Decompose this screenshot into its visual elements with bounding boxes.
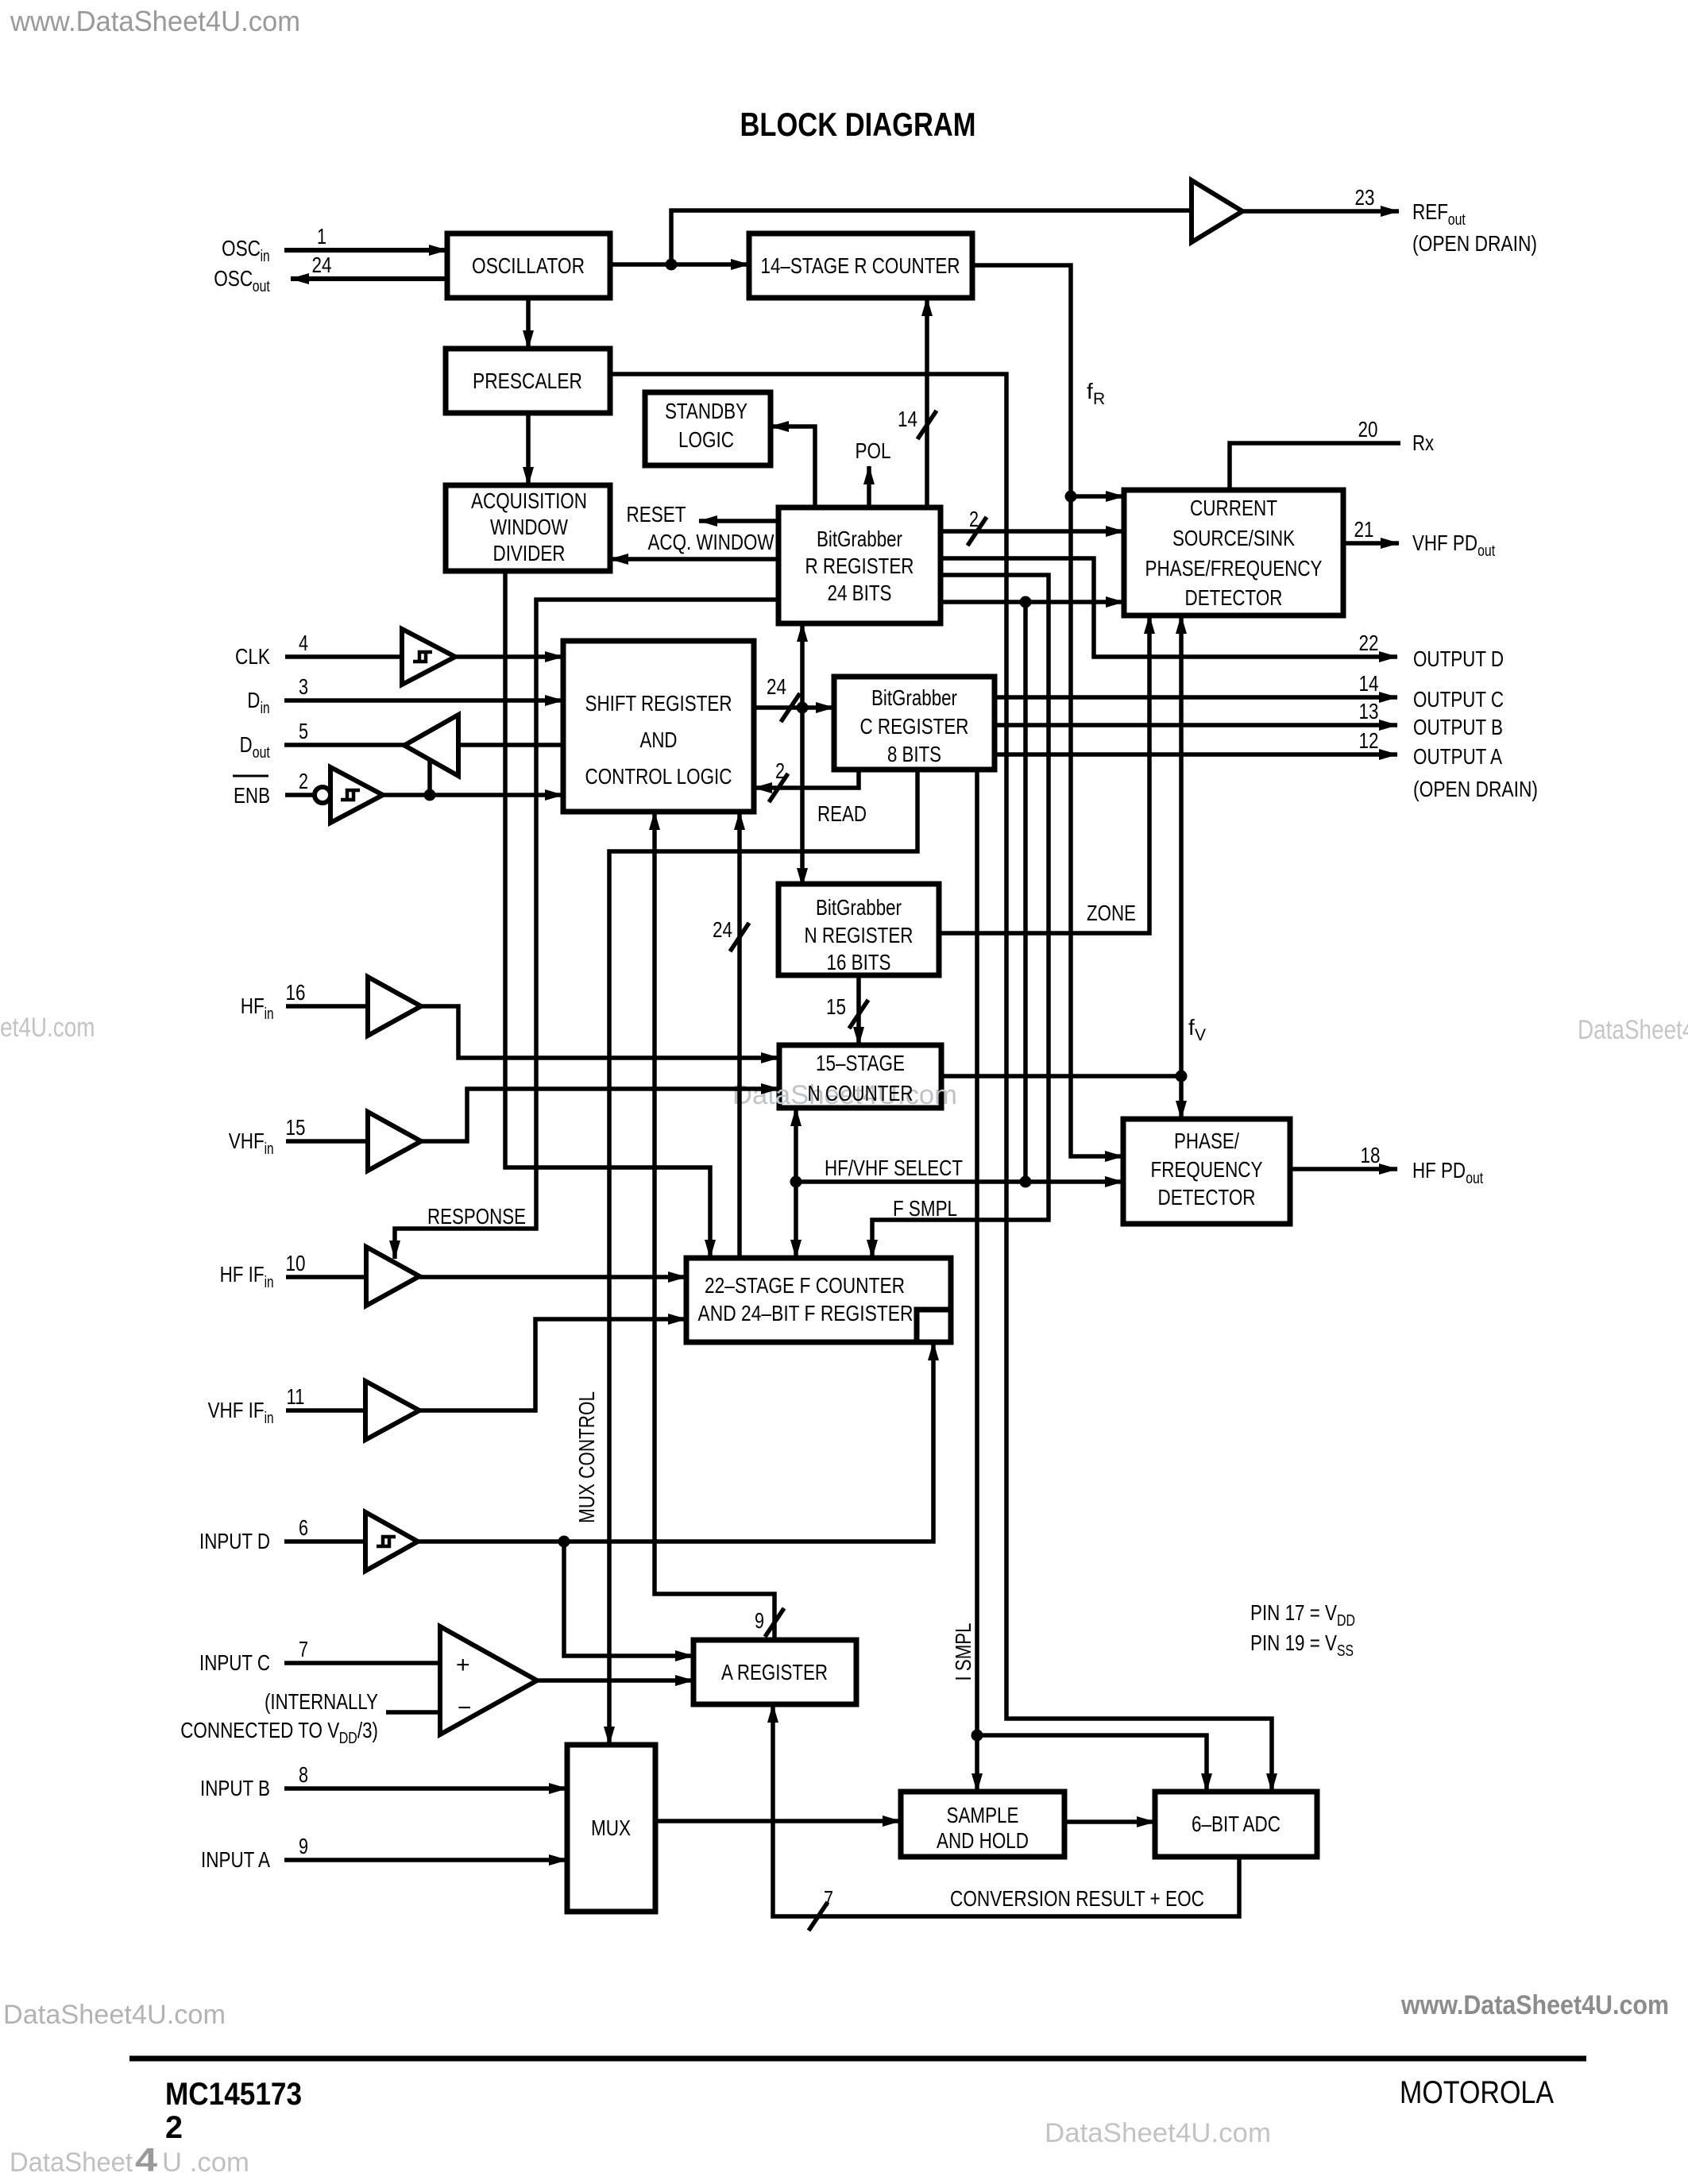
svg-text:D: D (247, 688, 260, 712)
wire READ: C REGISTER to SHIFT (2) (754, 770, 859, 788)
junction INPUT D (558, 1536, 570, 1548)
svg-text:INPUT D: INPUT D (199, 1529, 270, 1553)
svg-text:U .com: U .com (162, 2147, 249, 2178)
wire SAMPLE AND HOLD to ADC (1064, 1819, 1155, 1824)
svg-text:in: in (261, 248, 270, 265)
wire INPUT D buffer to F REGISTER tab (418, 1342, 933, 1542)
svg-text:out: out (1477, 542, 1495, 560)
svg-text:8 BITS: 8 BITS (887, 742, 941, 766)
svg-text:CURRENT: CURRENT (1190, 496, 1277, 520)
svg-text:8: 8 (299, 1762, 308, 1787)
wire down to HF/VHF select (1023, 602, 1028, 1182)
svg-text:INPUT B: INPUT B (200, 1776, 270, 1800)
wire bus up to R REGISTER (800, 623, 805, 708)
wire ZONE: N REGISTER to CURRENT (939, 615, 1149, 933)
svg-text:DataSheet4U.com: DataSheet4U.com (3, 2000, 226, 2030)
svg-text:out: out (253, 278, 270, 295)
svg-text:MC145173: MC145173 (165, 2077, 302, 2112)
wire VHFin buffer to N COUNTER (421, 1089, 779, 1141)
wire I SMPL branch to ADC (977, 1735, 1207, 1792)
svg-text:R: R (1093, 390, 1105, 408)
svg-text:HF PD: HF PD (1412, 1158, 1466, 1183)
svg-text:HF: HF (241, 994, 265, 1018)
buffer INPUT D schmitt (365, 1512, 418, 1571)
svg-text:in: in (265, 1274, 274, 1291)
svg-text:OSC: OSC (214, 266, 253, 291)
block BitGrabber C REGISTER 8 BITS (834, 677, 995, 770)
wire CONVERSION RESULT + EOC: ADC to A REGISTER (7) (773, 1704, 1239, 1916)
wire I SMPL: C REGISTER to SAMPLE AND HOLD (975, 770, 979, 1792)
wire Din to SHIFT REGISTER (284, 698, 563, 703)
svg-text:12: 12 (1359, 728, 1379, 753)
svg-text:R REGISTER: R REGISTER (805, 554, 914, 578)
wire VHFin pin to buffer (286, 1139, 368, 1144)
svg-text:OSCILLATOR: OSCILLATOR (472, 253, 585, 278)
svg-text:DIVIDER: DIVIDER (493, 541, 566, 565)
slash 2 (968, 517, 987, 546)
svg-text:C REGISTER: C REGISTER (860, 714, 969, 739)
svg-text:11: 11 (287, 1384, 305, 1409)
svg-text:LOGIC: LOGIC (678, 427, 734, 452)
wire R REGISTER to OUTPUT D pin 22 (941, 558, 1397, 657)
block OSCILLATOR (447, 233, 610, 298)
svg-text:OSC: OSC (222, 236, 261, 260)
wire HFin pin to buffer (286, 1004, 368, 1009)
wire REF buffer to REFout pin 23 (1242, 209, 1399, 214)
wire fV down to PHASE DETECTOR (1179, 1076, 1184, 1119)
svg-text:out: out (1466, 1170, 1483, 1187)
svg-text:PIN 19 = V: PIN 19 = V (1250, 1630, 1337, 1655)
block SAMPLE AND HOLD (901, 1792, 1064, 1857)
wire comparator minus stub (386, 1710, 440, 1715)
svg-text:CLK: CLK (235, 644, 270, 669)
svg-text:V: V (1195, 1026, 1206, 1044)
wire PRESCALER to 6-BIT ADC (long) (610, 374, 1272, 1792)
svg-text:HF/VHF SELECT: HF/VHF SELECT (825, 1156, 963, 1180)
svg-text:OUTPUT D: OUTPUT D (1413, 646, 1504, 671)
svg-text:f: f (1087, 379, 1093, 403)
junction select/R-reg (1020, 1176, 1032, 1188)
svg-text:N COUNTER: N COUNTER (808, 1081, 914, 1106)
block BitGrabber R REGISTER 24 BITS (778, 507, 941, 623)
svg-text:REF: REF (1412, 199, 1448, 224)
svg-text:DataSheet4U.com: DataSheet4U.com (1045, 2118, 1271, 2148)
wire Dout buffer to pin (284, 743, 404, 747)
wire INPUT B to MUX (284, 1786, 567, 1791)
junction fV (1176, 1071, 1188, 1082)
svg-text:INPUT C: INPUT C (199, 1650, 270, 1675)
slash 14 (917, 411, 937, 439)
buffer Dout (left-pointing) (404, 715, 458, 776)
buffer VHF IFin (365, 1381, 419, 1440)
block 14-STAGE R COUNTER (749, 233, 972, 298)
svg-text:POL: POL (856, 438, 891, 463)
slash 15 (849, 1000, 868, 1028)
junction I SMPL (971, 1730, 983, 1742)
wire Dout buffer enable stem (427, 759, 432, 795)
junction 24-bus (797, 702, 809, 714)
svg-text:in: in (265, 1005, 274, 1023)
svg-text:WINDOW: WINDOW (490, 515, 568, 539)
svg-text:1: 1 (317, 224, 326, 249)
wire F REGISTER readback to SHIFT (24) (737, 812, 742, 1258)
wire ACQ divider to F COUNTER (505, 571, 710, 1258)
svg-text:VHF: VHF (229, 1129, 265, 1153)
svg-text:15–STAGE: 15–STAGE (816, 1051, 905, 1075)
svg-text:Rx: Rx (1412, 430, 1434, 455)
svg-text:BLOCK DIAGRAM: BLOCK DIAGRAM (740, 106, 976, 143)
svg-text:MUX CONTROL: MUX CONTROL (574, 1391, 599, 1523)
svg-text:7: 7 (824, 1886, 833, 1911)
svg-text:DataSheet: DataSheet (10, 2147, 133, 2178)
junction ENB/Dout enable (424, 789, 436, 801)
junction R reg lower (1020, 596, 1032, 608)
wire R REGISTER to CURRENT lower (941, 600, 1124, 604)
buffer VHFin (368, 1112, 421, 1171)
svg-text:ACQ. WINDOW: ACQ. WINDOW (648, 530, 774, 554)
block CURRENT SOURCE/SINK PHASE/FREQUENCY DETECTOR (1124, 490, 1343, 615)
svg-text:4: 4 (135, 2141, 158, 2178)
svg-text:FREQUENCY: FREQUENCY (1151, 1157, 1263, 1182)
svg-text:PHASE/: PHASE/ (1174, 1129, 1239, 1153)
svg-text:VHF IF: VHF IF (208, 1398, 265, 1422)
svg-text:N REGISTER: N REGISTER (805, 923, 914, 947)
wire fV: N COUNTER to detectors (941, 1074, 1181, 1078)
wire bus down to N REGISTER (800, 708, 805, 886)
svg-text:AND HOLD: AND HOLD (937, 1828, 1029, 1853)
wire fR branch to CURRENT detector (1071, 494, 1124, 499)
wire MUX CONTROL: C REGISTER to MUX (609, 770, 917, 1745)
svg-text:in: in (265, 1410, 274, 1427)
svg-text:3: 3 (299, 674, 308, 699)
svg-text:14: 14 (898, 407, 917, 431)
svg-text:INPUT A: INPUT A (201, 1847, 270, 1872)
slash 7 (809, 1902, 828, 1931)
wire C REGISTER to OUTPUT C (995, 695, 1397, 700)
svg-text:6: 6 (299, 1515, 308, 1540)
wire SHIFT REGISTER to Dout buffer (458, 743, 563, 747)
svg-text:+: + (456, 1652, 470, 1678)
wire A REGISTER readback to SHIFT (9) (655, 812, 774, 1640)
svg-text:DD: DD (1337, 1612, 1355, 1630)
svg-text:ZONE: ZONE (1087, 901, 1136, 925)
wire POL (867, 466, 871, 507)
svg-text:10: 10 (286, 1251, 306, 1275)
buffer HFin (368, 977, 421, 1036)
svg-text:24 BITS: 24 BITS (828, 581, 892, 605)
svg-text:SS: SS (1337, 1642, 1354, 1660)
svg-text:BitGrabber: BitGrabber (871, 685, 957, 710)
svg-text:−: − (458, 1695, 472, 1721)
buffer HF IFin (366, 1247, 419, 1306)
svg-text:2: 2 (299, 769, 308, 793)
svg-text:5: 5 (299, 719, 308, 743)
block A REGISTER (693, 1640, 856, 1704)
svg-text:AND 24–BIT F REGISTER: AND 24–BIT F REGISTER (698, 1301, 914, 1325)
wire OSCILLATOR to PRESCALER (526, 298, 531, 349)
wire HF/VHF select vertical N COUNTER to F COUNTER (794, 1108, 798, 1258)
svg-text:DD: DD (339, 1730, 357, 1747)
svg-text:7: 7 (299, 1637, 308, 1661)
wire OSCILLATOR to R COUNTER (610, 262, 749, 267)
svg-text:in: in (265, 1140, 274, 1158)
svg-text:SOURCE/SINK: SOURCE/SINK (1172, 526, 1295, 550)
svg-text:24: 24 (713, 917, 732, 942)
svg-text:DataSheet4U.com: DataSheet4U.com (1578, 1015, 1688, 1045)
svg-text:9: 9 (299, 1834, 308, 1858)
wire MUX to SAMPLE AND HOLD (655, 1819, 901, 1823)
block STANDBY LOGIC (645, 392, 771, 465)
svg-text:www.DataSheet4U.com: www.DataSheet4U.com (10, 5, 300, 37)
svg-text:22–STAGE F COUNTER: 22–STAGE F COUNTER (705, 1273, 905, 1298)
block ACQUISITION WINDOW DIVIDER (446, 485, 610, 571)
wire HF IFin pin to buffer (286, 1275, 366, 1279)
wire fR: R COUNTER to detectors (972, 265, 1123, 1156)
svg-text:15: 15 (826, 994, 846, 1019)
svg-text:24: 24 (767, 674, 786, 699)
wire junction up to REF buffer (671, 210, 1192, 264)
slash 2 READ (769, 774, 788, 802)
block MUX (567, 1745, 655, 1912)
svg-text:SHIFT REGISTER: SHIFT REGISTER (585, 691, 732, 716)
svg-text:2: 2 (775, 758, 785, 783)
buffer CLK schmitt (402, 629, 455, 685)
svg-text:RESET: RESET (627, 502, 686, 527)
svg-text:MUX: MUX (591, 1815, 631, 1840)
wire OSCin to OSCILLATOR (284, 248, 447, 253)
block PRESCALER (446, 349, 610, 413)
wire VHF PDout: CURRENT to pin 21 (1343, 541, 1399, 546)
svg-text:OUTPUT C: OUTPUT C (1413, 687, 1504, 712)
F REGISTER output tab (917, 1310, 951, 1342)
svg-text:16 BITS: 16 BITS (827, 950, 891, 974)
wire HF PDout: PHASE DETECTOR to pin 18 (1290, 1167, 1397, 1171)
svg-text:AND: AND (640, 727, 678, 752)
svg-text:(OPEN DRAIN): (OPEN DRAIN) (1413, 777, 1538, 801)
wire R REGISTER to R COUNTER (14) (925, 298, 929, 507)
wire PRESCALER to ACQ divider (526, 413, 531, 485)
svg-text:STANDBY: STANDBY (665, 399, 747, 423)
svg-text:ENB: ENB (234, 783, 270, 808)
svg-text:ACQUISITION: ACQUISITION (471, 488, 587, 513)
svg-text:14: 14 (1359, 671, 1379, 696)
svg-text:f: f (1188, 1015, 1195, 1040)
svg-text:OUTPUT A: OUTPUT A (1413, 744, 1502, 769)
svg-text:9: 9 (755, 1608, 764, 1633)
wire ENB buffer to SHIFT REGISTER (383, 793, 563, 797)
block 22-STAGE F COUNTER AND 24-BIT F REGISTER (686, 1258, 951, 1342)
svg-text:13: 13 (1359, 699, 1379, 723)
wire INPUT A to MUX (284, 1858, 567, 1862)
svg-text:PIN 17 = V: PIN 17 = V (1250, 1600, 1337, 1625)
svg-text:MOTOROLA: MOTOROLA (1400, 2075, 1554, 2110)
block PHASE/FREQUENCY DETECTOR (1123, 1119, 1290, 1224)
footer rule (129, 2056, 1586, 2062)
wire C REGISTER to OUTPUT A (995, 752, 1397, 757)
block BitGrabber N REGISTER 16 BITS (778, 884, 939, 975)
junction fR (1065, 491, 1077, 503)
wire R REGISTER to CURRENT (2) (941, 529, 1124, 534)
svg-text:CONNECTED TO V: CONNECTED TO V (180, 1718, 339, 1742)
svg-text:CONVERSION RESULT + EOC: CONVERSION RESULT + EOC (950, 1886, 1204, 1911)
svg-text:14–STAGE R COUNTER: 14–STAGE R COUNTER (761, 253, 960, 278)
svg-text:BitGrabber: BitGrabber (817, 527, 902, 551)
slash 9 (765, 1608, 784, 1637)
svg-text:out: out (1448, 211, 1466, 229)
wire R REGISTER to STANDBY LOGIC (771, 426, 815, 507)
svg-text:15: 15 (286, 1115, 306, 1140)
svg-text:24: 24 (312, 253, 332, 277)
svg-text:in: in (261, 700, 270, 717)
wire R REGISTER to F SMPL (872, 575, 1049, 1258)
wire comparator to A REGISTER (537, 1678, 693, 1683)
buffer ENB schmitt with bubble (315, 787, 330, 803)
wire Rx: CURRENT to pin 20 (1230, 443, 1400, 490)
svg-text:(INTERNALLY: (INTERNALLY (265, 1689, 378, 1714)
svg-text:I SMPL: I SMPL (951, 1623, 975, 1681)
svg-text:HF IF: HF IF (220, 1262, 265, 1287)
slash 24 readback (730, 923, 749, 951)
svg-text:PRESCALER: PRESCALER (473, 369, 582, 393)
svg-text:F SMPL: F SMPL (893, 1196, 957, 1221)
svg-text:22: 22 (1359, 631, 1379, 655)
wire RESPONSE: R REGISTER to HF IF buffer (395, 600, 778, 1259)
block SHIFT REGISTER AND CONTROL LOGIC (563, 641, 754, 812)
svg-text:6–BIT ADC: 6–BIT ADC (1192, 1812, 1280, 1836)
svg-text:PHASE/FREQUENCY: PHASE/FREQUENCY (1145, 556, 1323, 581)
wire RESET (699, 519, 778, 523)
wire HF IF buffer to F COUNTER (419, 1275, 686, 1279)
svg-text:DETECTOR: DETECTOR (1185, 585, 1283, 610)
svg-text:(OPEN DRAIN): (OPEN DRAIN) (1412, 231, 1537, 256)
wire VHF IF buffer to F COUNTER (419, 1319, 686, 1410)
wire HF/VHF SELECT to PHASE DETECTOR (796, 1179, 1123, 1184)
block 15-STAGE N COUNTER (779, 1045, 941, 1108)
svg-text:20: 20 (1358, 417, 1378, 442)
junction OSC output (666, 259, 678, 271)
svg-text:21: 21 (1354, 517, 1374, 542)
svg-text:18: 18 (1361, 1143, 1381, 1167)
svg-text:23: 23 (1355, 185, 1375, 210)
svg-text:RESPONSE: RESPONSE (427, 1204, 526, 1229)
wire ENB pin to bubble (285, 793, 315, 797)
wire HFin buffer to N COUNTER (421, 1006, 779, 1058)
svg-text:SAMPLE: SAMPLE (947, 1803, 1019, 1827)
wire N REGISTER to N COUNTER (15) (856, 973, 861, 1045)
slash 24 (781, 693, 800, 722)
wire CLK pin to buffer (285, 654, 402, 659)
wire 24-bit bus SHIFT to C REGISTER (754, 705, 834, 710)
svg-text:/3): /3) (357, 1718, 378, 1742)
svg-text:OUTPUT B: OUTPUT B (1413, 715, 1503, 739)
svg-text:D: D (240, 732, 253, 757)
wire VHF IFin pin to buffer (286, 1408, 365, 1413)
svg-text:16: 16 (286, 980, 306, 1005)
svg-text:2: 2 (165, 2110, 183, 2145)
wire C REGISTER to OUTPUT B (995, 723, 1397, 727)
wire INPUT D pin to buffer (284, 1539, 365, 1544)
wire ACQ. WINDOW (610, 557, 778, 561)
svg-text:READ: READ (817, 801, 867, 826)
wire INPUT D branch to A REGISTER (564, 1542, 693, 1656)
wire fV up to CURRENT (1179, 615, 1184, 1076)
block 6-BIT ADC (1155, 1792, 1317, 1857)
wire OSCILLATOR to OSCout (291, 276, 447, 281)
svg-text:VHF PD: VHF PD (1412, 531, 1477, 555)
svg-text:2: 2 (969, 507, 979, 531)
svg-text:BitGrabber: BitGrabber (816, 895, 902, 920)
svg-text:DETECTOR: DETECTOR (1158, 1185, 1256, 1210)
svg-text:www.DataSheet4U.com: www.DataSheet4U.com (1400, 1990, 1669, 2020)
comparator INPUT C (440, 1626, 537, 1734)
svg-text:CONTROL LOGIC: CONTROL LOGIC (585, 764, 732, 789)
svg-text:4: 4 (299, 631, 308, 655)
svg-text:out: out (253, 744, 270, 762)
wire INPUT C to comparator (284, 1661, 440, 1665)
junction HF/VHF select (790, 1176, 802, 1188)
buffer REFout (1192, 180, 1242, 242)
svg-text:A REGISTER: A REGISTER (721, 1660, 828, 1684)
wire CLK buffer to SHIFT REGISTER (455, 654, 563, 659)
svg-text:DataSheet4U.com: DataSheet4U.com (0, 1013, 95, 1043)
